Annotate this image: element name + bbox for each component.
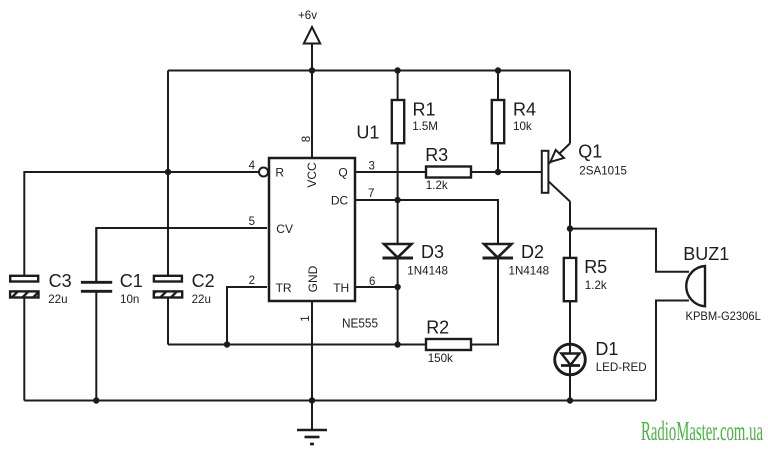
svg-text:LED-RED: LED-RED (596, 361, 647, 374)
svg-text:CV: CV (276, 222, 293, 236)
wire pin 3 Q output to R3 (355, 171, 426, 173)
ground symbol (297, 401, 327, 445)
svg-text:R: R (275, 166, 284, 180)
node junction dot gnd/rail (309, 397, 315, 403)
node junction dot pin6 (394, 284, 400, 290)
node junction dot collector / R5 / buzzer (567, 225, 573, 231)
wire pin 6 TH (355, 286, 398, 288)
svg-text:R5: R5 (584, 257, 607, 277)
wire pin 4 reset to far left and down to C3 (24, 172, 259, 276)
wire top rail +6v net (168, 70, 570, 72)
resistor R4 10k (492, 71, 504, 173)
op-amp U1 NE555 IC body (269, 158, 355, 301)
svg-text:D1: D1 (595, 339, 618, 359)
resistor R1 1.5M (392, 71, 404, 245)
svg-text:BUZ1: BUZ1 (683, 244, 729, 264)
svg-text:1: 1 (300, 315, 312, 321)
svg-text:1.5M: 1.5M (412, 120, 438, 133)
svg-text:VCC: VCC (305, 162, 319, 188)
node junction dot R1 top / rail (394, 67, 400, 73)
svg-text:TH: TH (333, 281, 349, 295)
svg-text:1N4148: 1N4148 (509, 265, 550, 278)
svg-text:3: 3 (369, 160, 375, 172)
power +6v symbol (304, 27, 320, 71)
svg-text:R3: R3 (425, 145, 448, 165)
node junction dot D1 / ground rail (567, 397, 573, 403)
wire left vertical from rail to C2 (167, 71, 169, 276)
svg-text:NE555: NE555 (342, 316, 378, 331)
svg-text:R2: R2 (426, 317, 449, 337)
wire C2 bottom to 344 net (167, 298, 169, 345)
node junction dot pin4 wire / left vertical (165, 169, 171, 175)
wire collector node to buzzer top (570, 229, 689, 272)
wire D3 cathode down through pin6 to 344 net (397, 258, 399, 345)
svg-text:2SA1015: 2SA1015 (579, 165, 627, 178)
pin bubble reset pin4 (259, 168, 268, 177)
svg-text:KPBM-G2306L: KPBM-G2306L (686, 310, 762, 323)
wire D2 cathode down to R2 right (471, 258, 498, 345)
svg-text:Q: Q (338, 166, 347, 180)
svg-text:2: 2 (249, 275, 255, 287)
svg-text:5: 5 (249, 216, 255, 228)
svg-text:1.2k: 1.2k (426, 179, 448, 192)
diode D1 LED-RED (555, 344, 586, 401)
resistor R5 1.2k (564, 229, 576, 344)
svg-text:Q1: Q1 (578, 142, 602, 162)
node junction dot rail/+6v (309, 67, 315, 73)
wire bottom ground rail (24, 400, 656, 402)
svg-text:D3: D3 (421, 242, 444, 262)
capacitor C1 10n (81, 228, 112, 291)
wire pin 2 TR down to bottom net (227, 287, 267, 345)
svg-text:7: 7 (368, 188, 374, 200)
svg-text:C2: C2 (192, 271, 215, 291)
svg-text:GND: GND (306, 265, 320, 292)
svg-text:DC: DC (331, 193, 349, 207)
svg-text:D2: D2 (521, 242, 544, 262)
svg-text:1N4148: 1N4148 (407, 265, 448, 278)
svg-text:1.2k: 1.2k (585, 279, 607, 292)
transistor Q1 2SA1015 (542, 71, 570, 229)
buzzer BUZ1 symbol (686, 266, 705, 306)
wire VCC pin8 vertical (311, 71, 313, 159)
wire buzzer bottom to ground rail (656, 301, 689, 401)
wire pin 5 CV to C1 (96, 228, 267, 281)
node junction dot pin7 / R1-D3 vertical (394, 197, 400, 203)
node junction dot C1/rail (93, 397, 99, 403)
node junction dot D3 vertical / 344 net (394, 341, 400, 347)
capacitor C3 22u polarized (10, 276, 38, 298)
svg-text:RadioMaster.com.ua: RadioMaster.com.ua (641, 415, 763, 446)
diode D2 1N4148 (483, 244, 514, 258)
wire pin 7 DC to D2 top (355, 200, 498, 244)
svg-text:TR: TR (276, 281, 292, 295)
wire C1 bottom to rail (95, 292, 97, 401)
svg-text:4: 4 (249, 160, 256, 172)
svg-text:R1: R1 (413, 100, 436, 120)
svg-text:+6v: +6v (298, 9, 317, 22)
svg-text:8: 8 (301, 136, 313, 142)
node junction dot R4 top / rail (495, 67, 501, 73)
svg-text:150k: 150k (428, 352, 453, 365)
svg-text:C1: C1 (120, 271, 143, 291)
node junction dot R4 bottom / base wire (495, 169, 501, 175)
wire GND pin1 vertical (311, 301, 313, 401)
wire R3 to Q1 base (471, 171, 542, 173)
node junction dot TR / 344 wire (224, 341, 230, 347)
svg-text:10k: 10k (513, 120, 532, 133)
svg-text:C3: C3 (49, 271, 72, 291)
svg-text:10n: 10n (120, 293, 139, 306)
svg-text:22u: 22u (48, 293, 67, 306)
svg-text:U1: U1 (356, 123, 379, 143)
resistor R2 150k body (426, 339, 471, 350)
svg-text:22u: 22u (192, 293, 211, 306)
resistor R3 1.2k body (426, 167, 471, 178)
wire C3 bottom to rail (23, 298, 25, 401)
capacitor C2 22u polarized (154, 276, 182, 298)
svg-text:R4: R4 (513, 100, 536, 120)
wire horizontal net C2-R2 at y 344 (168, 344, 426, 346)
diode D3 1N4148 (383, 244, 414, 258)
